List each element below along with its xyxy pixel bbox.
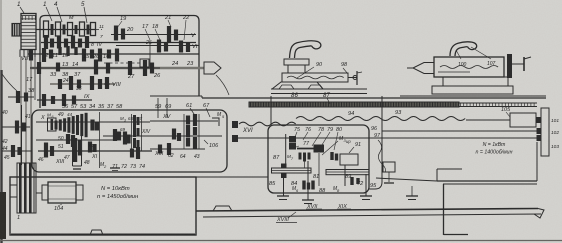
apron box outline — [268, 125, 369, 193]
friction clutch gears on shaft II — [44, 21, 96, 37]
label XVIII boxed — [276, 212, 297, 223]
gears on shaft III — [44, 35, 89, 49]
shaft XIII — [55, 143, 205, 165]
label VII — [21, 56, 28, 62]
M2 foot — [110, 168, 120, 171]
shaft XV — [150, 114, 218, 121]
clutch labels — [287, 154, 340, 193]
rack toothed bar — [249, 102, 459, 107]
apron labels — [269, 155, 377, 194]
feed rod XVI wavy — [239, 122, 296, 126]
Norton tumbler arm — [73, 136, 82, 169]
labels 100 107 — [456, 47, 496, 68]
worm pair 77 — [289, 136, 310, 150]
labels 27 26 spindle — [127, 73, 161, 80]
shaft XI — [38, 151, 152, 160]
shaft IV — [28, 53, 199, 55]
label 1 bottom — [17, 215, 20, 221]
apron bar 1 — [272, 168, 312, 173]
M3 leader — [322, 136, 351, 155]
labels 36 57 53 34 35 37 58 — [62, 104, 123, 110]
bed bottom rails — [196, 206, 544, 218]
shaft VIII — [50, 83, 115, 85]
labels 62 64 43 — [168, 153, 200, 160]
left tumbler gears — [2, 105, 32, 165]
vertical separator — [99, 112, 101, 168]
shaft XII — [36, 134, 120, 147]
mid cluster bracket — [132, 114, 142, 151]
gears on spindle — [37, 60, 154, 77]
long wavy line 94 — [296, 117, 465, 121]
shaft II — [41, 29, 102, 31]
labels 12 11 10 — [42, 53, 69, 59]
bed under tailstock — [400, 95, 546, 97]
label 105 — [501, 107, 511, 117]
cross slide — [282, 73, 348, 82]
clutch M5 — [212, 112, 225, 126]
label M clutch — [69, 15, 74, 21]
feed gearbox outline — [32, 110, 227, 172]
reverse gears far left — [2, 74, 34, 103]
gears on shaft XIV left — [113, 127, 131, 145]
gears on shaft XI — [44, 138, 97, 162]
main motor text — [97, 186, 139, 200]
labels 50 51 — [58, 136, 64, 150]
rapid motor text — [476, 142, 513, 156]
small box right of apron — [383, 162, 395, 183]
shaft V — [111, 33, 196, 39]
bottom scan edge — [0, 240, 562, 242]
shaft X right gears — [90, 120, 99, 131]
motor pulley — [17, 163, 36, 213]
left cabinet — [10, 177, 196, 235]
shaft X — [36, 115, 150, 122]
headstock gearbox outline — [40, 16, 202, 109]
labels 86 87 — [291, 92, 330, 104]
gears on shaft IV — [29, 46, 119, 62]
clutch M2 — [100, 147, 140, 169]
label 104 — [54, 204, 63, 212]
label 106 — [204, 140, 219, 149]
tailstock handwheel — [507, 54, 531, 78]
shaft XIV — [103, 129, 222, 136]
gears on shaft IX — [42, 94, 76, 106]
tool post column — [288, 65, 305, 73]
apron housing 91 — [340, 142, 361, 165]
cabinet top line — [10, 176, 268, 178]
small gear cluster mid — [299, 152, 339, 168]
label XVI — [242, 128, 253, 134]
labels 15 26 16 — [83, 54, 110, 60]
labels 101 102 103 — [551, 118, 559, 150]
gear cluster 61 64 — [172, 114, 199, 149]
motor body — [36, 182, 83, 203]
rod to right gearbox — [466, 119, 510, 121]
labels 25 24 23 — [145, 40, 194, 67]
labels 49 44 — [58, 112, 73, 118]
right gearbox 105 — [510, 113, 541, 127]
carriage left wall — [270, 96, 272, 125]
right leg — [444, 184, 469, 235]
gears on shaft VIII — [58, 76, 109, 90]
leader squiggle 97 — [378, 140, 386, 172]
labels XVII XIX — [306, 204, 351, 210]
labels 65 67 top — [120, 116, 143, 123]
apron hangers — [284, 153, 367, 200]
coupling squares — [232, 121, 238, 142]
tool post handle — [284, 41, 321, 65]
upper shaft 148 — [286, 134, 324, 168]
Norton gear cone — [55, 113, 88, 137]
left edge fold line — [0, 0, 6, 243]
spindle VII — [30, 67, 204, 69]
labels 59 69 61 67 — [155, 103, 210, 117]
dashed chain to square — [104, 59, 149, 67]
right bracket — [537, 108, 550, 156]
labels 8 IV — [91, 42, 102, 48]
bar collars — [281, 164, 287, 179]
gears on shaft V — [114, 26, 178, 43]
shaft IX — [37, 94, 92, 100]
control rod right — [382, 130, 541, 132]
gears on shaft VI — [157, 40, 190, 53]
shaft III — [41, 42, 196, 44]
shaft VI — [116, 44, 199, 50]
labels 17 38 left — [26, 77, 35, 94]
labels 40 41 42 45 44 — [2, 110, 31, 161]
apron feet — [277, 186, 418, 204]
labels 11 7 — [99, 24, 104, 40]
bed lower edge right — [376, 142, 537, 184]
apron top gear labels — [294, 126, 381, 150]
label VIII — [104, 82, 121, 88]
labels 33 38 37 — [50, 72, 82, 92]
labels 13 14 — [62, 62, 78, 68]
connector verticals — [158, 98, 167, 118]
apron bar 2 — [326, 170, 369, 175]
belt — [21, 57, 31, 163]
apron small gears lower — [302, 177, 359, 190]
pulley legs — [20, 50, 35, 58]
saddle band — [271, 85, 367, 94]
spindle nose center — [204, 62, 229, 95]
tailstock quill tip — [407, 63, 434, 74]
labels 94 93 — [348, 110, 402, 117]
labels 71 72 73 74 — [112, 164, 145, 170]
pulley shaft stub — [36, 29, 41, 31]
clutch box M6 — [47, 113, 56, 132]
cross slide base trapezoid — [272, 82, 323, 89]
labels 90 98 — [297, 62, 348, 78]
leadscrew continuation — [459, 103, 537, 107]
tailstock handle — [450, 42, 477, 56]
carriage right wall — [369, 96, 382, 189]
tailstock base — [432, 77, 513, 94]
top leader labels — [17, 1, 87, 23]
labels 46 47 48 — [38, 143, 94, 166]
cross slide screw crank — [348, 71, 362, 85]
tailstock body — [434, 57, 504, 77]
main drive pulley hatched — [12, 14, 36, 50]
bed top line — [202, 97, 546, 99]
labels 19 20 17 18 21 22 — [117, 15, 190, 40]
motor left flange — [10, 185, 17, 197]
lead screw rod — [238, 137, 541, 139]
shift fork verticals — [35, 42, 150, 100]
